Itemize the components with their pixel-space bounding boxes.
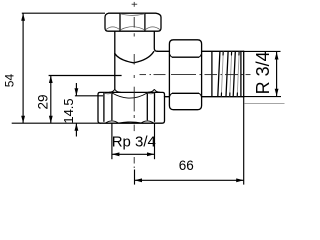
svg-text:R 3/4: R 3/4 [253, 51, 273, 94]
svg-text:14.5: 14.5 [61, 98, 76, 123]
svg-text:54: 54 [2, 74, 16, 88]
svg-text:Rp 3/4: Rp 3/4 [112, 133, 156, 150]
svg-text:66: 66 [179, 158, 194, 173]
svg-text:29: 29 [35, 94, 50, 109]
